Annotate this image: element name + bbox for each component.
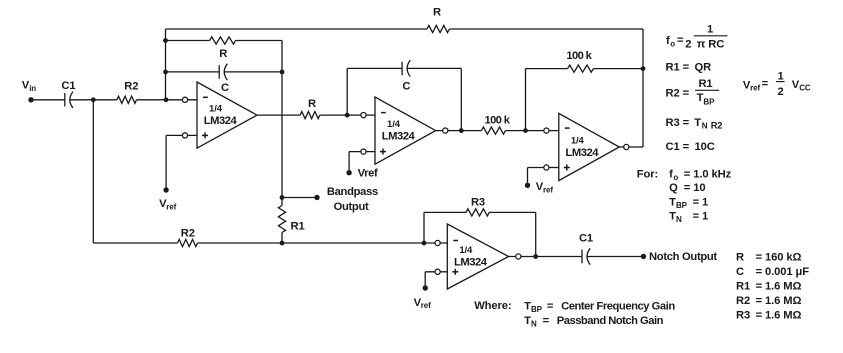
label C	[221, 82, 229, 94]
svg-text:C: C	[402, 81, 410, 93]
wire U3 feedback left vertical	[525, 69, 527, 131]
wire U2 output	[436, 130, 482, 132]
formula R2 = R1/TBP	[666, 78, 720, 107]
svg-text:Output: Output	[334, 201, 369, 213]
formula Vref = 1/2 Vcc	[743, 70, 811, 98]
svg-text:LM324: LM324	[204, 115, 238, 127]
svg-text:Notch Output: Notch Output	[649, 251, 717, 263]
label R3	[471, 197, 485, 209]
U2 inverting input circle	[361, 113, 366, 118]
Bandpass Output terminal	[314, 195, 319, 200]
wire N1 down	[92, 100, 94, 243]
svg-text:1: 1	[778, 70, 784, 82]
junction U4 output node	[533, 254, 538, 259]
label Vref (U1)	[159, 198, 177, 211]
capacitor C (U2 feedback)	[402, 60, 410, 76]
svg-text:o: o	[670, 40, 675, 49]
svg-text:1/4: 1/4	[571, 135, 585, 146]
svg-text:N: N	[531, 319, 537, 328]
wire U3 feedback top left	[526, 68, 568, 70]
wire N1 to R2	[93, 99, 117, 101]
formula R1 = QR	[666, 62, 712, 74]
wire R3 top left	[424, 211, 466, 213]
formula C1 = 10C	[666, 141, 715, 153]
resistor R (interstage)	[300, 112, 320, 119]
U2 plus input wire	[349, 151, 375, 153]
svg-text:Passband Notch Gain: Passband Notch Gain	[557, 315, 664, 327]
svg-text:R1: R1	[698, 78, 712, 90]
svg-text:ref: ref	[543, 185, 553, 194]
svg-text:100 k: 100 k	[566, 50, 592, 62]
wire R1 to bottom node	[281, 233, 283, 244]
U1 plus input wire	[166, 134, 197, 136]
label C1 (output)	[579, 232, 593, 244]
svg-text:π RC: π RC	[697, 39, 724, 51]
wire R3 left vertical	[423, 212, 425, 243]
svg-text:ref: ref	[421, 301, 431, 310]
Vref terminal (U2)	[346, 170, 351, 175]
label Bandpass Output	[327, 186, 378, 213]
wire bandpass tap	[282, 197, 317, 199]
Vref terminal (U4)	[423, 285, 428, 290]
svg-text:100 k: 100 k	[485, 115, 511, 127]
U4 output circle	[516, 254, 521, 259]
op-amp U2 1/4 LM324	[375, 97, 436, 164]
wire R3 right vertical	[535, 212, 537, 256]
svg-text:C1: C1	[61, 80, 75, 92]
wire U4 output	[509, 256, 582, 258]
svg-text:R: R	[219, 48, 227, 60]
wire R feedback left	[166, 40, 210, 42]
junction C feedback right	[280, 70, 285, 75]
wire U1 plus to Vref	[165, 135, 167, 190]
svg-text:2: 2	[778, 86, 784, 98]
U3 output circle	[624, 144, 629, 149]
wire 100k to U3 inverting input	[506, 130, 559, 132]
label Vref (U2)	[358, 168, 378, 180]
label R2 (feedback)	[181, 228, 195, 240]
svg-text:R2 =: R2 =	[666, 88, 690, 100]
svg-text:= 10: = 10	[684, 182, 706, 194]
label Vref (U3)	[536, 181, 554, 194]
capacitor C1 (input)	[65, 92, 73, 108]
resistor R2 (input)	[117, 96, 137, 103]
junction R1 bottom node	[280, 241, 285, 246]
svg-text:=: =	[762, 78, 769, 90]
label Vin	[22, 80, 37, 94]
label Vref (U4)	[414, 297, 432, 310]
label Where:	[474, 300, 511, 312]
resistor R (U1 feedback)	[210, 37, 236, 44]
capacitor C (U1 feedback)	[219, 64, 227, 80]
svg-text:o: o	[673, 173, 678, 182]
svg-text:R2: R2	[711, 121, 723, 131]
value R = 160 kOhm	[736, 251, 802, 263]
node Vin input terminal	[28, 97, 33, 102]
svg-text:10C: 10C	[695, 141, 715, 153]
svg-text:Center Frequency Gain: Center Frequency Gain	[561, 301, 675, 313]
svg-text:R1 =: R1 =	[666, 62, 690, 74]
right feedback vertical wire	[642, 29, 644, 147]
wire bottom left	[93, 242, 177, 244]
svg-text:= 1.0 kHz: = 1.0 kHz	[684, 168, 732, 180]
svg-text:Vref: Vref	[358, 168, 378, 180]
svg-text:QR: QR	[695, 62, 712, 74]
svg-text:in: in	[29, 84, 36, 93]
wire C feedback left	[166, 71, 220, 73]
left feedback vertical wire	[165, 29, 167, 100]
label R2	[124, 81, 138, 93]
svg-text:ref: ref	[166, 202, 176, 211]
wire U3 plus to Vref	[527, 168, 529, 186]
wire C feedback right	[224, 71, 282, 73]
label C1	[61, 80, 75, 92]
svg-text:= 1: = 1	[693, 196, 709, 208]
condition Q = 10	[669, 182, 705, 194]
wire U2 C feedback right vertical	[460, 68, 462, 130]
op-amp U4 1/4 LM324	[447, 224, 508, 289]
wire U1 output	[257, 114, 300, 116]
junction bandpass tap	[280, 195, 285, 200]
wire N2 to U1 inverting input	[166, 99, 197, 101]
svg-text:ref: ref	[750, 84, 760, 93]
svg-text:=: =	[677, 35, 684, 47]
label R (outer)	[433, 7, 441, 19]
svg-text:T: T	[694, 117, 701, 129]
junction U2 inverting node	[345, 113, 350, 118]
resistor 100k (interstage)	[481, 127, 505, 134]
resistor R1	[278, 206, 285, 233]
wire U2 C feedback left vertical	[346, 68, 348, 115]
condition TBP = 1	[669, 196, 708, 210]
wire U2 plus to Vref	[348, 152, 350, 173]
svg-text:R1: R1	[736, 280, 750, 292]
Vref terminal (U1)	[163, 187, 168, 192]
svg-text:1/4: 1/4	[387, 119, 401, 130]
label For:	[637, 169, 658, 181]
wire U2 C feedback right	[407, 67, 461, 69]
wire U4 plus to Vref	[424, 272, 426, 288]
svg-text:BP: BP	[676, 201, 688, 210]
wire R2 to node N2	[137, 99, 167, 101]
svg-text:C1 =: C1 =	[666, 141, 690, 153]
svg-text:= 1.6 MΩ: = 1.6 MΩ	[756, 280, 802, 292]
svg-text:= 1.6 MΩ: = 1.6 MΩ	[756, 309, 802, 321]
wire top feedback right	[449, 28, 643, 30]
definition TBP	[524, 301, 675, 315]
value R2 = 1.6 MOhm	[736, 295, 802, 307]
op-amp U1 1/4 LM324	[197, 82, 257, 148]
junction at C feedback row	[163, 70, 168, 75]
value C = 0.001 uF	[736, 266, 809, 278]
wire C1 to node N1	[70, 99, 94, 101]
label 100 k (U3 feedback)	[566, 50, 592, 62]
svg-text:=: =	[547, 301, 554, 313]
U2 plus input circle	[361, 149, 366, 154]
svg-text:Q: Q	[669, 182, 678, 194]
wire U3 feedback top right	[593, 68, 643, 70]
svg-text:For:: For:	[637, 169, 658, 181]
svg-text:= 1: = 1	[693, 210, 709, 222]
label Notch Output	[649, 251, 717, 263]
svg-text:C1: C1	[579, 232, 593, 244]
U4 plus input wire	[425, 271, 447, 273]
svg-text:N: N	[676, 215, 682, 224]
svg-text:CC: CC	[799, 83, 811, 92]
svg-text:N: N	[702, 122, 708, 131]
svg-text:= 1.6 MΩ: = 1.6 MΩ	[756, 295, 802, 307]
label C (U2)	[402, 81, 410, 93]
svg-text:= 160 kΩ: = 160 kΩ	[756, 251, 802, 263]
label 100 k (interstage)	[485, 115, 511, 127]
svg-text:2: 2	[685, 38, 691, 50]
junction node N1	[91, 97, 96, 102]
U1 inverting input circle	[182, 97, 187, 102]
label R	[219, 48, 227, 60]
svg-text:R2: R2	[124, 81, 138, 93]
svg-text:R1: R1	[291, 221, 305, 233]
op-amp U3 1/4 LM324	[559, 113, 620, 180]
svg-text:Where:: Where:	[474, 300, 511, 312]
svg-text:LM324: LM324	[454, 256, 488, 268]
resistor R3	[466, 209, 489, 216]
value R3 = 1.6 MOhm	[736, 309, 802, 321]
svg-text:R2: R2	[736, 295, 750, 307]
svg-text:R2: R2	[181, 228, 195, 240]
formula fo = 1/(2 pi RC)	[666, 24, 728, 51]
wire R feedback right	[236, 40, 282, 42]
svg-text:BP: BP	[703, 98, 715, 107]
svg-text:LM324: LM324	[382, 130, 416, 142]
wire bottom middle	[198, 242, 448, 244]
svg-text:R: R	[736, 251, 744, 263]
resistor R (outer feedback)	[427, 25, 449, 32]
wire R to U2 inverting input	[320, 114, 375, 116]
wire U2 C feedback top	[347, 67, 402, 69]
junction node N2	[164, 97, 169, 102]
svg-text:Bandpass: Bandpass	[327, 186, 378, 198]
U4 plus input circle	[435, 269, 440, 274]
condition TN = 1	[669, 210, 708, 224]
svg-text:R3: R3	[736, 309, 750, 321]
wire Vin to C1	[31, 99, 65, 101]
label R (interstage)	[308, 98, 316, 110]
junction U2 output node	[459, 128, 464, 133]
Vref terminal (U3)	[525, 183, 530, 188]
capacitor C1 (output)	[582, 248, 590, 264]
Notch Output terminal	[641, 254, 646, 259]
svg-text:BP: BP	[531, 305, 543, 314]
U3 plus input circle	[544, 165, 549, 170]
label R1	[291, 221, 305, 233]
svg-text:R: R	[308, 98, 316, 110]
wire top feedback left	[166, 28, 428, 30]
U3 plus input wire	[528, 167, 559, 169]
junction U4 inverting node	[422, 241, 427, 246]
svg-text:C: C	[736, 266, 744, 278]
svg-text:R: R	[433, 7, 441, 19]
condition fo = 1.0 kHz	[669, 168, 732, 182]
value R1 = 1.6 MOhm	[736, 280, 802, 292]
svg-text:1/4: 1/4	[459, 245, 473, 256]
definition TN	[524, 315, 663, 329]
svg-text:LM324: LM324	[566, 147, 600, 159]
wire U3 output	[619, 146, 643, 148]
U4 inverting input circle	[435, 240, 440, 245]
U1 plus input circle	[182, 133, 187, 138]
junction 100k feedback right	[641, 66, 646, 71]
svg-text:= 0.001 μF: = 0.001 μF	[756, 266, 810, 278]
resistor 100k (U3 feedback)	[568, 65, 594, 72]
formula R3 = TN R2	[666, 117, 723, 131]
U2 output circle	[443, 128, 448, 133]
svg-text:1: 1	[707, 24, 713, 36]
svg-text:C: C	[221, 82, 229, 94]
wire C1 to notch terminal	[587, 256, 644, 258]
junction at R feedback row	[163, 38, 168, 43]
svg-text:=: =	[543, 315, 550, 327]
svg-text:R3 =: R3 =	[666, 117, 690, 129]
junction U3 inverting node	[523, 128, 528, 133]
U3 inverting input circle	[544, 128, 549, 133]
wire R3 top right	[489, 211, 536, 213]
svg-text:1/4: 1/4	[209, 104, 223, 115]
vertical wire R/C feedback to R1	[281, 41, 283, 206]
resistor R2 (feedback)	[178, 239, 198, 246]
svg-text:R3: R3	[471, 197, 485, 209]
